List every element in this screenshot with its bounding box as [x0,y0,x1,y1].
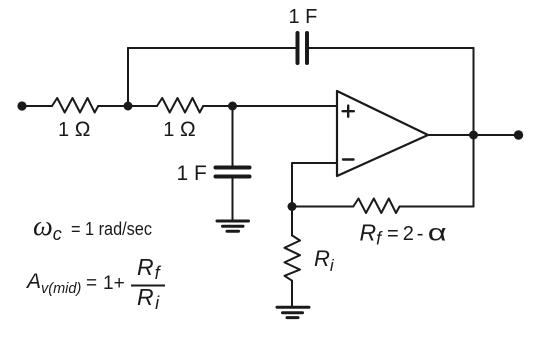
resistor Rf [353,199,399,214]
output wire [428,134,518,136]
capacitor C2 [216,168,250,177]
svg-text:1 F: 1 F [289,6,318,28]
fraction bar [131,285,165,287]
wire inverting input [292,163,337,207]
output terminal [514,130,523,139]
wire R2 to op-amp [203,105,337,107]
op-amp plus pin [343,106,354,117]
wire Rf to right vertical [400,206,474,208]
resistor Ri [285,235,301,280]
wire node B down to C2 [232,106,234,166]
node A junction [124,102,133,111]
wire node C to Rf [292,206,353,208]
ground [277,307,309,317]
wire Ri to ground [291,281,293,307]
output node junction [469,131,478,140]
op-amp U1 [337,91,428,176]
svg-text:1 Ω: 1 Ω [58,118,90,141]
svg-text:1+: 1+ [103,273,125,294]
wire input to R1 [22,105,52,107]
svg-text:= 1 rad/sec: = 1 rad/sec [71,218,152,239]
node C junction [288,202,297,211]
wire node A up [127,48,129,106]
op-amp minus pin [343,158,354,160]
label Rf value [360,219,447,248]
wire R1 to R2 [98,105,157,107]
svg-text:1 Ω: 1 Ω [163,118,195,141]
svg-text:α: α [428,219,447,245]
svg-text:1 F: 1 F [177,162,207,185]
wire C2 to ground [232,178,234,221]
resistor R2 [157,98,203,113]
capacitor C1 [298,33,308,63]
wire top right [309,47,474,49]
svg-text:=: = [86,273,97,294]
wire right vertical upper [473,48,475,135]
wire top left [128,47,296,49]
svg-text:2: 2 [403,223,414,245]
resistor R1 [52,98,98,113]
svg-text:-: - [417,223,424,245]
node B junction [228,102,237,111]
svg-text:=: = [387,223,399,245]
wire node C to Ri [291,207,293,236]
wire right vertical lower [473,135,475,207]
input terminal [17,101,26,110]
ground [217,221,249,231]
